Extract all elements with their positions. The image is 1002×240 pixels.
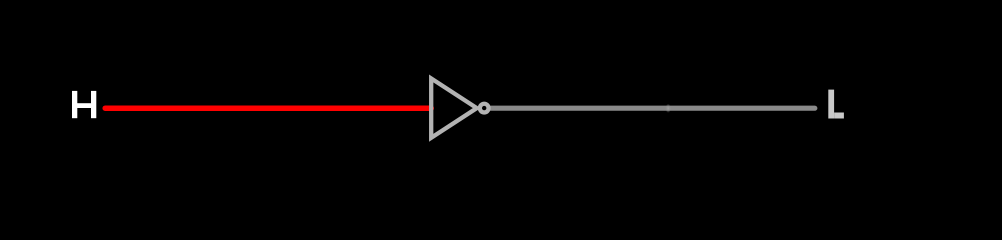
inverter U1 bubble (480, 104, 489, 113)
node L label (828, 90, 844, 119)
node H label (72, 91, 96, 118)
inverter U1 triangle (431, 79, 477, 138)
wire: inverter output net (low, gray) (491, 106, 815, 111)
wire: H input net (hot, red) (105, 105, 431, 111)
wire junction (665, 104, 671, 113)
